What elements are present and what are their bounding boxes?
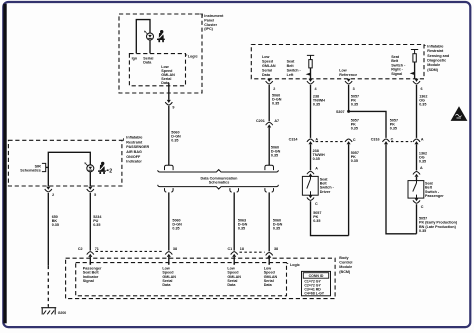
svg-text:2: 2 [273,87,275,91]
lamp circuit wires [48,152,90,186]
wire 238 TN/WH from SDM pin 4 [310,85,312,138]
svg-text:0.35: 0.35 [313,103,320,107]
IPC label tick [199,14,202,16]
BCM pin 38 connector (C1) [266,252,273,257]
svg-text:0.35: 0.35 [419,159,426,163]
svg-text:A: A [420,166,423,170]
svg-text:GMLAN: GMLAN [262,64,276,68]
indicator lamp (passenger air bag) [84,162,93,171]
indicator box [8,140,122,186]
svg-text:0.35: 0.35 [313,157,320,161]
svg-text:Diagnostic: Diagnostic [427,59,446,63]
dashed wire to G200 [47,266,49,306]
passenger switch pin C connector [413,198,420,203]
svg-text:Restraint: Restraint [126,140,143,144]
svg-text:AIR BAG: AIR BAG [126,150,142,154]
svg-text:71: 71 [95,247,99,251]
passenger switch pin A connector [413,172,420,177]
svg-text:Ign: Ign [132,56,138,60]
direction arrow [410,72,415,75]
svg-text:Driver: Driver [320,190,331,194]
wire 5057 PK from SDM pin 3 [348,85,350,112]
svg-text:2: 2 [109,169,112,175]
svg-text:Schematics: Schematics [209,181,230,185]
svg-text:Logic: Logic [290,263,300,267]
svg-text:Data: Data [227,283,236,287]
driver switch pin A connector [307,171,314,176]
bus tap (IPC wire) [165,165,174,170]
IPC logic box [129,54,185,86]
wire 1362 OG from SDM pin 6 [416,85,418,138]
svg-text:C2: C2 [78,247,83,251]
svg-text:ON/OFF: ON/OFF [126,155,141,159]
SIR bracket [42,163,46,171]
wire IPC pin 9 [168,83,170,100]
svg-text:C: C [353,138,356,142]
BCM logic box [76,263,287,296]
svg-text:Speed: Speed [262,59,274,63]
svg-text:9: 9 [172,106,174,110]
svg-text:C: C [421,205,424,209]
wire stubs into BCM logic [89,257,91,264]
svg-text:C1: C1 [227,247,232,251]
svg-text:(SDM): (SDM) [427,68,438,72]
svg-text:Module: Module [339,265,352,269]
svg-text:0.35: 0.35 [172,226,179,230]
left page-edge bar [3,4,6,324]
svg-text:18: 18 [240,247,244,251]
wire 5060 D-GN drop 1 [168,192,170,250]
wire 238 TN/WH below C314 [310,144,312,170]
wire 5060 D-GN from SDM pin 2 [268,85,270,121]
svg-text:C201: C201 [256,119,265,123]
wire 5234 PU to BCM [89,193,91,251]
connector C314 boundary dashes [316,141,345,143]
svg-text:Inflatable: Inflatable [126,136,142,140]
switch symbol (passenger) [413,181,417,199]
lamp wire loop [136,20,150,54]
svg-text:PASSENGER: PASSENGER [126,145,149,149]
svg-text:Belt: Belt [287,64,295,68]
svg-text:A: A [315,138,318,142]
svg-text:Schematics: Schematics [20,168,41,172]
svg-text:Indicator: Indicator [126,160,142,164]
SDM box [251,45,424,79]
BCM box [66,258,336,298]
seat belt switch passenger box [408,181,424,199]
wire below lamp [89,172,91,187]
svg-text:Module: Module [427,63,440,67]
svg-text:Inflatable: Inflatable [427,44,443,48]
svg-text:0.35: 0.35 [390,126,397,130]
logic tick [287,263,289,265]
BCM pin 38 connector (C2) [165,252,172,257]
svg-text:0.35: 0.35 [313,219,320,223]
svg-text:C: C [315,202,318,206]
SDM pin 4 connector [307,79,314,84]
svg-text:0.35: 0.35 [171,138,178,142]
wire stub into passenger switch [416,177,418,181]
switch symbol (driver) [307,176,311,195]
svg-text:Data: Data [262,73,271,77]
seat belt person icon (indicator) [98,162,106,174]
data bus bottom brace [158,185,279,189]
svg-text:CONN ID: CONN ID [309,274,324,278]
resistor (seat belt switch right pull-up) [411,50,418,54]
svg-text:38: 38 [173,247,177,251]
svg-text:Passenger: Passenger [425,194,444,198]
svg-text:Instrument: Instrument [204,14,224,18]
svg-text:S307: S307 [336,110,345,114]
svg-text:Serial: Serial [262,68,272,72]
svg-text:A7: A7 [274,119,279,123]
svg-text:0.35: 0.35 [52,223,59,227]
svg-text:Restraint: Restraint [427,49,444,53]
svg-text:0.35: 0.35 [351,103,358,107]
ground G200 [41,306,56,315]
icon pointer tick [106,169,108,171]
svg-text:A: A [421,138,424,142]
svg-text:Data: Data [143,61,152,65]
indicator lamp (IPC seat belt lamp) [144,31,153,40]
svg-text:3: 3 [353,87,355,91]
wire 5060 to data bus [168,106,170,165]
logic tick [186,54,188,56]
svg-text:0.35: 0.35 [93,223,100,227]
wire 5063 D-GN drop 2 [233,192,235,250]
svg-text:Signal: Signal [391,72,402,76]
svg-text:(IPC): (IPC) [204,27,213,31]
wire 1362 OG below C316 [416,144,418,170]
svg-text:C316: C316 [371,138,380,142]
bus tap (SDM wire) [265,165,274,170]
SDM pin 2 connector [266,79,273,84]
svg-text:38: 38 [274,247,278,251]
svg-text:0.35: 0.35 [273,226,280,230]
svg-text:G200: G200 [58,311,67,315]
svg-text:C314: C314 [289,138,299,142]
svg-text:Panel: Panel [204,18,214,22]
connector C2 boundary dashes [96,250,164,252]
wire SIR to lamp circuit [46,166,49,168]
svg-text:Logic: Logic [188,55,198,59]
resistor (seat belt switch left pull-up) [307,55,314,59]
svg-text:Control: Control [339,261,352,265]
svg-text:Low: Low [262,55,270,59]
svg-text:0.35: 0.35 [351,126,358,130]
bus tap bottom 3 [265,188,274,192]
svg-text:Low: Low [339,69,347,73]
indicator pin 2 connector [45,187,52,192]
wire 5060 D-GN below C201 [268,128,270,166]
indicator pin 5 connector [87,187,94,192]
svg-text:Data: Data [264,283,273,287]
svg-text:C: C [391,138,394,142]
seat belt switch driver box [302,176,318,195]
CONN ID table [302,271,331,295]
instrument panel cluster box [119,14,202,93]
svg-text:2: 2 [52,193,54,197]
SDM pin 3 connector [345,79,352,84]
svg-text:6: 6 [421,87,423,91]
indicator label tick [122,138,124,140]
SDM pin 6 connector [413,79,420,84]
seat belt person icon (IPC) [157,30,165,42]
svg-text:Switch -: Switch - [287,68,302,72]
svg-text:0.35: 0.35 [419,229,426,233]
svg-text:Body: Body [339,256,349,260]
svg-text:C4=68 L-GY: C4=68 L-GY [304,292,324,296]
svg-text:Data: Data [162,283,171,287]
warning triangle icon [451,106,468,121]
connector C314 pin C [345,139,352,144]
svg-text:0.35: 0.35 [238,226,245,230]
svg-text:0.35: 0.35 [419,103,426,107]
svg-text:A: A [315,166,318,170]
wire 5057 PK below C316 [386,144,414,234]
svg-text:0.35: 0.35 [351,159,358,163]
bus tap bottom 1 [165,188,174,192]
connector C1 boundary dashes [240,251,265,253]
svg-text:Left: Left [287,73,295,77]
SDM label tick [424,44,426,46]
svg-text:(BCM): (BCM) [339,270,351,274]
connector pin 9 symbol [165,100,172,105]
wire 5060 D-GN drop 3 [268,192,270,251]
svg-text:Sensing and: Sensing and [427,54,450,58]
connector C316 boundary dashes [391,141,412,143]
svg-text:5: 5 [94,193,96,197]
data bus top brace [158,170,279,172]
svg-text:Cluster: Cluster [204,23,217,27]
direction arrow [306,73,311,76]
svg-text:Seat: Seat [287,59,296,63]
wire branch S307 to C316 [349,111,386,137]
driver switch pin C connector [307,195,314,200]
svg-text:Reference: Reference [339,73,357,77]
svg-text:0.35: 0.35 [271,154,278,158]
splice S307 [347,110,350,113]
bus tap bottom 2 [230,188,239,192]
wire 5057 PK/BN from passenger switch [414,204,416,234]
svg-text:Signal: Signal [83,279,94,283]
wire 650 BK to ground [47,193,49,266]
svg-text:0.35: 0.35 [272,101,279,105]
wire 5057 PK from driver switch [311,201,349,235]
connector C316 pin A [413,139,420,144]
wire 5057 PK return to C314 [348,144,350,235]
